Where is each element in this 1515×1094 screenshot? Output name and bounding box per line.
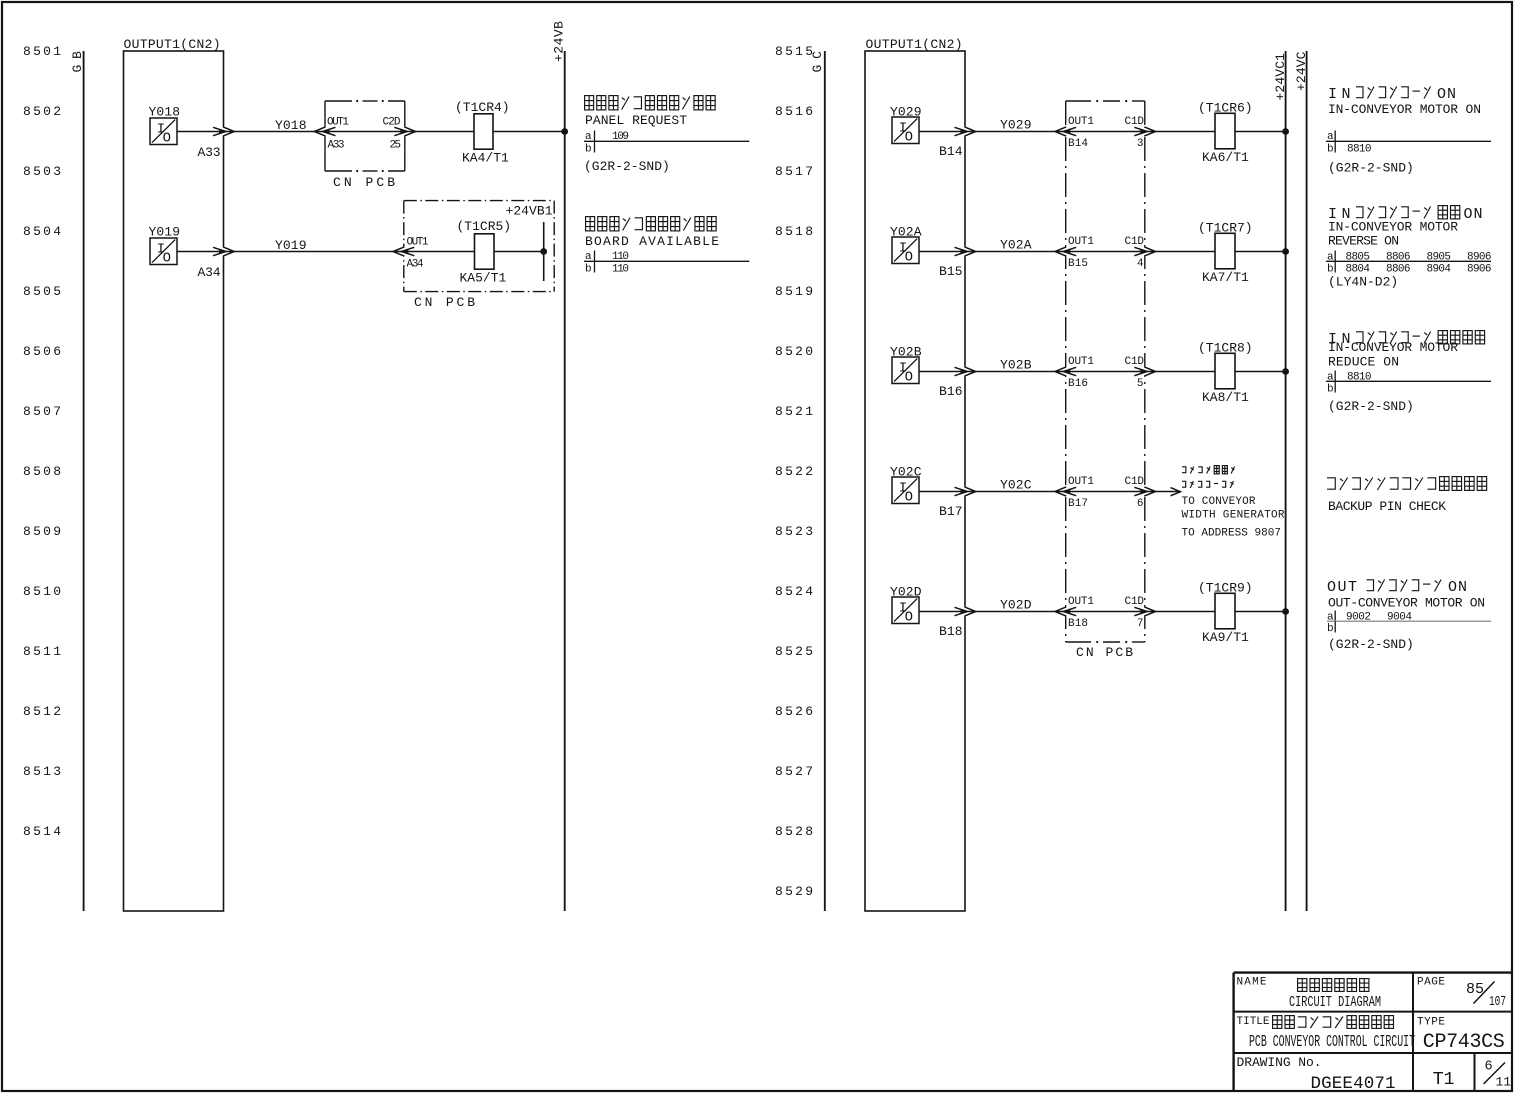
connector symbol into CN PCB row 8504 <box>393 247 414 256</box>
net label Y02D on wire <box>1000 598 1032 613</box>
annotation row 8524 OUT-CONVEYOR MOTOR ON <box>1327 579 1491 652</box>
pin label C2D row 8502 <box>383 117 401 129</box>
svg-text:PANEL REQUEST: PANEL REQUEST <box>585 113 687 128</box>
svg-text:A33: A33 <box>328 140 345 152</box>
pin label B17 inside CN PCB <box>1068 498 1088 510</box>
pin number 4 <box>1137 258 1144 270</box>
svg-text:IN-CONVEYOR MOTOR ON: IN-CONVEYOR MOTOR ON <box>1328 102 1481 117</box>
svg-text:B18: B18 <box>1068 618 1088 630</box>
svg-text:A34: A34 <box>198 265 221 280</box>
svg-text:Y02D: Y02D <box>1000 598 1032 613</box>
svg-text:ON: ON <box>1464 206 1484 223</box>
svg-text:BOARD AVAILABLE: BOARD AVAILABLE <box>585 234 719 249</box>
svg-text:B17: B17 <box>1068 498 1088 510</box>
svg-text:O: O <box>163 130 171 146</box>
pin label OUT1 Y02A <box>1068 236 1094 248</box>
svg-text:O: O <box>905 369 913 385</box>
rail GC vertical bus wire <box>824 51 826 911</box>
svg-text:O: O <box>905 489 913 505</box>
relay coil KA9/T1 (T1CR9) <box>1198 581 1253 646</box>
connector pin A33 on OUTPUT1(CN2) <box>198 127 235 160</box>
connector symbol into CN PCB Y02C <box>1055 487 1076 496</box>
svg-text:C1D: C1D <box>1125 356 1145 368</box>
annotation to conveyor width generator <box>1182 466 1285 540</box>
annotation row 8520 IN-CONVEYOR MOTOR REDUCE ON <box>1326 331 1491 414</box>
svg-text:TYPE: TYPE <box>1417 1017 1445 1029</box>
pin number 5 <box>1137 378 1144 390</box>
svg-text:B15: B15 <box>1068 258 1088 270</box>
power stub +24VB1 <box>506 204 553 282</box>
pin label OUT1 row 8502 <box>327 117 349 129</box>
relay coil KA8/T1 (T1CR8) <box>1198 341 1253 406</box>
pin label OUT1 Y029 <box>1068 116 1094 128</box>
pin label OUT1 row 8504 <box>407 237 429 249</box>
svg-text:KA5/T1: KA5/T1 <box>460 271 507 286</box>
pin number 6 <box>1137 498 1144 510</box>
svg-text:Y02C: Y02C <box>1000 478 1032 493</box>
svg-text:A33: A33 <box>198 145 221 160</box>
svg-text:OUTPUT1(CN2): OUTPUT1(CN2) <box>124 37 221 52</box>
connector pin B18 on OUTPUT1(CN2) <box>939 607 976 639</box>
connector pin B16 on OUTPUT1(CN2) <box>939 367 976 399</box>
svg-text:OUT: OUT <box>1327 579 1359 596</box>
pin number 25 <box>390 140 402 152</box>
svg-text:b: b <box>1327 384 1334 396</box>
svg-text:b: b <box>1327 623 1334 635</box>
connector symbol out of CN PCB Y02D <box>1134 607 1155 616</box>
svg-text:OUT1: OUT1 <box>327 117 349 129</box>
svg-text:C1D: C1D <box>1125 116 1145 128</box>
title block PAGE cell 85/107 <box>1417 977 1506 1011</box>
svg-text:C2D: C2D <box>383 117 401 129</box>
net label Y02C on wire <box>1000 478 1032 493</box>
svg-text:REVERSE ON: REVERSE ON <box>1328 234 1399 249</box>
wire row 8520 Y02B <box>918 371 1286 373</box>
connector pin B14 on OUTPUT1(CN2) <box>939 127 976 159</box>
pin label C1D Y029 <box>1125 116 1145 128</box>
wire row 8522 Y02C <box>918 491 1180 493</box>
svg-text:(G2R-2-SND): (G2R-2-SND) <box>1328 161 1414 176</box>
svg-text:REDUCE ON: REDUCE ON <box>1328 355 1399 370</box>
svg-text:Y019: Y019 <box>275 238 307 253</box>
net label Y018 on wire <box>275 118 307 133</box>
net label Y02A on wire <box>1000 238 1032 253</box>
svg-text:KA7/T1: KA7/T1 <box>1202 270 1249 285</box>
I/O output module Y02D <box>890 585 922 626</box>
net label Y029 on wire <box>1000 118 1032 133</box>
title block TYPE cell CP743CS <box>1417 1017 1505 1055</box>
svg-text:8904: 8904 <box>1427 264 1452 276</box>
svg-text:BACKUP PIN CHECK: BACKUP PIN CHECK <box>1328 499 1446 514</box>
power rail +24VB label <box>552 21 567 62</box>
connector box OUTPUT1(CN2) right <box>865 37 967 911</box>
wire row 8504 from I/O Y019 to +24VB1 node <box>177 251 544 253</box>
svg-text:4: 4 <box>1137 258 1144 270</box>
relay coil KA7/T1 (T1CR7) <box>1198 221 1253 286</box>
annotation row 8504 BOARD AVAILABLE <box>584 217 749 276</box>
svg-text:B14: B14 <box>1068 138 1088 150</box>
relay coil KA6/T1 (T1CR6) <box>1198 101 1253 166</box>
svg-text:Y029: Y029 <box>1000 118 1032 133</box>
pin label B18 inside CN PCB <box>1068 618 1088 630</box>
svg-text:O: O <box>905 249 913 265</box>
pin label A33 inside CN PCB <box>328 140 345 152</box>
svg-text:DGEE4071: DGEE4071 <box>1311 1074 1396 1094</box>
svg-text:3: 3 <box>1137 138 1144 150</box>
net label GB <box>70 51 85 73</box>
connector box OUTPUT1(CN2) left <box>124 37 226 911</box>
svg-text:(G2R-2-SND): (G2R-2-SND) <box>1328 637 1414 652</box>
pin label OUT1 Y02D <box>1068 596 1094 608</box>
label CN PCB row 8504 <box>414 295 475 310</box>
svg-text:KA8/T1: KA8/T1 <box>1202 390 1249 405</box>
connector symbol out of CN PCB Y02C <box>1134 487 1155 496</box>
wire row 8524 Y02D <box>918 611 1286 613</box>
svg-text:C1D: C1D <box>1125 236 1145 248</box>
connector symbol into CN PCB Y029 <box>1055 127 1076 136</box>
svg-text:(G2R-2-SND): (G2R-2-SND) <box>584 159 670 174</box>
pin number 3 <box>1137 138 1144 150</box>
connector symbol out of CN PCB Y02B <box>1134 367 1155 376</box>
svg-text:IN: IN <box>1328 86 1355 103</box>
title block TITLE cell <box>1237 1016 1416 1051</box>
svg-text:TO CONVEYOR: TO CONVEYOR <box>1182 496 1256 508</box>
connector symbol into CN PCB row 8502 <box>314 127 335 136</box>
svg-text:NAME: NAME <box>1237 977 1267 989</box>
pin label OUT1 Y02B <box>1068 356 1094 368</box>
I/O output module Y02A <box>890 225 922 266</box>
svg-text:PCB CONVEYOR CONTROL CIRCUIT: PCB CONVEYOR CONTROL CIRCUIT <box>1249 1032 1415 1051</box>
svg-text:OUT1: OUT1 <box>1068 236 1094 248</box>
connector symbol into CN PCB Y02D <box>1055 607 1076 616</box>
svg-text:7: 7 <box>1137 618 1144 630</box>
node junction row 8516 on +24VC1 <box>1282 128 1289 135</box>
connector symbol out of CN PCB row 8502 <box>394 127 415 136</box>
CN PCB module box row 8502 <box>323 100 407 172</box>
svg-text:8906: 8906 <box>1467 264 1492 276</box>
svg-text:TO ADDRESS 9807: TO ADDRESS 9807 <box>1182 528 1282 540</box>
connector pin A34 on OUTPUT1(CN2) <box>198 247 235 280</box>
pin label B14 inside CN PCB <box>1068 138 1088 150</box>
svg-text:OUT1: OUT1 <box>1068 476 1094 488</box>
svg-text:Y02B: Y02B <box>1000 358 1032 373</box>
pin label C1D Y02C <box>1125 476 1145 488</box>
svg-text:CIRCUIT DIAGRAM: CIRCUIT DIAGRAM <box>1289 994 1381 1011</box>
svg-text:OUTPUT1(CN2): OUTPUT1(CN2) <box>866 37 963 52</box>
svg-text:KA9/T1: KA9/T1 <box>1202 630 1249 645</box>
title block sheet cell T1 <box>1433 1069 1455 1090</box>
svg-text:TITLE: TITLE <box>1237 1016 1270 1028</box>
rail GB vertical bus wire <box>83 51 85 911</box>
left ladder line-number column 8501-8514 <box>23 44 61 839</box>
power rail +24VB wire <box>564 51 566 911</box>
pin number 7 <box>1137 618 1144 630</box>
svg-text:CP743CS: CP743CS <box>1423 1031 1505 1054</box>
svg-text:(G2R-2-SND): (G2R-2-SND) <box>1328 399 1414 414</box>
svg-text:O: O <box>163 250 171 266</box>
pin label B15 inside CN PCB <box>1068 258 1088 270</box>
svg-text:(T1CR5): (T1CR5) <box>457 219 512 234</box>
pin label B16 inside CN PCB <box>1068 378 1088 390</box>
title block DRAWING No. cell DGEE4071 <box>1237 1055 1396 1094</box>
annotation row 8516 IN-CONVEYOR MOTOR ON <box>1326 86 1491 176</box>
svg-text:C1D: C1D <box>1125 596 1145 608</box>
svg-text:OUT-CONVEYOR MOTOR ON: OUT-CONVEYOR MOTOR ON <box>1328 596 1485 611</box>
pin label C1D Y02B <box>1125 356 1145 368</box>
svg-text:Y018: Y018 <box>275 118 307 133</box>
svg-text:A34: A34 <box>407 259 424 271</box>
svg-text:C1D: C1D <box>1125 476 1145 488</box>
I/O output module Y018 <box>149 105 181 147</box>
label CN PCB right box <box>1076 645 1133 660</box>
svg-text:B17: B17 <box>939 504 963 519</box>
power rail +24VC label <box>1294 51 1309 91</box>
svg-text:KA4/T1: KA4/T1 <box>462 151 509 166</box>
svg-text:OUT1: OUT1 <box>1068 116 1094 128</box>
connector symbol into CN PCB Y02A <box>1055 247 1076 256</box>
svg-text:107: 107 <box>1489 995 1506 1010</box>
svg-text:KA6/T1: KA6/T1 <box>1202 150 1249 165</box>
svg-text:WIDTH GENERATOR: WIDTH GENERATOR <box>1182 510 1285 522</box>
I/O output module Y029 <box>890 105 922 146</box>
wire row 8502 from I/O Y018 to +24VB <box>177 131 565 133</box>
svg-text:O: O <box>905 609 913 625</box>
svg-text:Y02A: Y02A <box>1000 238 1032 253</box>
svg-text:PAGE: PAGE <box>1417 977 1445 989</box>
middle ladder line-number column 8515-8529 <box>775 44 813 899</box>
node junction row 8502 on +24VB <box>561 128 568 135</box>
node junction row 8524 on +24VC1 <box>1282 608 1289 615</box>
title block NAME cell <box>1237 977 1382 1012</box>
svg-text:OUT1: OUT1 <box>407 237 429 249</box>
pin label C1D Y02A <box>1125 236 1145 248</box>
svg-text:11: 11 <box>1496 1075 1512 1090</box>
CN PCB module dash-dot box right (rows 8516-8524) <box>1064 100 1148 643</box>
pin label C1D Y02D <box>1125 596 1145 608</box>
svg-text:B16: B16 <box>939 384 963 399</box>
svg-text:6: 6 <box>1485 1060 1493 1075</box>
connector symbol out of CN PCB Y02A <box>1134 247 1155 256</box>
svg-text:25: 25 <box>390 140 402 152</box>
svg-text:5: 5 <box>1137 378 1144 390</box>
svg-text:b: b <box>1327 144 1334 156</box>
pin label OUT1 Y02C <box>1068 476 1094 488</box>
node junction row 8520 on +24VC1 <box>1282 368 1289 375</box>
node junction row 8518 on +24VC1 <box>1282 248 1289 255</box>
connector symbol out of CN PCB Y029 <box>1134 127 1155 136</box>
svg-text:B16: B16 <box>1068 378 1088 390</box>
annotation row 8518 IN-CONVEYOR MOTOR REVERSE ON <box>1326 206 1492 290</box>
svg-text:b: b <box>585 264 592 276</box>
I/O output module Y02C <box>890 465 922 506</box>
wire row 8518 Y02A <box>918 251 1286 253</box>
svg-text:B18: B18 <box>939 624 963 639</box>
svg-text:B14: B14 <box>939 144 963 159</box>
power rail +24VC1 wire <box>1285 51 1287 911</box>
svg-text:IN-CONVEYOR MOTOR: IN-CONVEYOR MOTOR <box>1328 220 1458 235</box>
node junction row 8504 +24VB1 <box>540 248 547 255</box>
relay coil KA4/T1 (T1CR4) <box>455 100 510 166</box>
annotation row 8522 BACKUP PIN CHECK <box>1327 477 1487 514</box>
title block sheet number 6/11 <box>1484 1060 1512 1090</box>
svg-text:(T1CR4): (T1CR4) <box>455 100 510 115</box>
net label GC <box>810 51 825 73</box>
svg-text:OUT1: OUT1 <box>1068 356 1094 368</box>
svg-text:DRAWING No.: DRAWING No. <box>1237 1055 1322 1070</box>
I/O output module Y02B <box>890 345 922 386</box>
svg-text:8810: 8810 <box>1347 144 1372 156</box>
label CN PCB row 8502 <box>333 175 395 190</box>
svg-text:B15: B15 <box>939 264 963 279</box>
pin label A34 inside CN PCB <box>407 259 424 271</box>
svg-text:O: O <box>905 129 913 145</box>
title block frame <box>1234 973 1511 1092</box>
net label Y02B on wire <box>1000 358 1032 373</box>
connector symbol into CN PCB Y02B <box>1055 367 1076 376</box>
svg-text:T1: T1 <box>1433 1069 1455 1090</box>
svg-text:ON: ON <box>1448 579 1468 596</box>
net label Y019 on wire <box>275 238 307 253</box>
svg-text:ON: ON <box>1437 86 1457 103</box>
svg-text:6: 6 <box>1137 498 1144 510</box>
svg-text:IN-CONVEYOR MOTOR: IN-CONVEYOR MOTOR <box>1328 340 1458 355</box>
power rail +24VC wire <box>1306 51 1308 911</box>
svg-text:+24VB1: +24VB1 <box>506 204 553 219</box>
svg-text:110: 110 <box>612 264 629 276</box>
annotation row 8502 PANEL REQUEST <box>584 96 749 174</box>
svg-text:(LY4N-D2): (LY4N-D2) <box>1328 275 1398 290</box>
connector pin B17 on OUTPUT1(CN2) <box>939 487 976 519</box>
svg-text:OUT1: OUT1 <box>1068 596 1094 608</box>
arrow to conveyor width generator row 8522 <box>1171 488 1181 496</box>
relay coil KA5/T1 (T1CR5) <box>457 219 512 286</box>
connector pin B15 on OUTPUT1(CN2) <box>939 247 976 279</box>
svg-text:b: b <box>585 144 592 156</box>
CN PCB module dash-dot box row 8504 <box>402 201 555 292</box>
power rail +24VC1 label <box>1273 53 1288 101</box>
wire row 8516 Y029 <box>918 131 1286 133</box>
I/O output module Y019 <box>149 225 181 267</box>
